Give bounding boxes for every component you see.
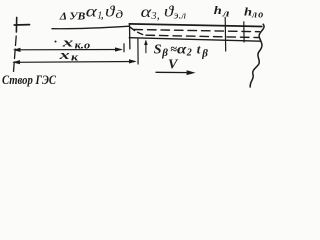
ice cover left edge (with extension down to dimension line)	[129, 24, 131, 49]
dimension x_к left arrowhead	[12, 60, 20, 64]
break (wavy) line at right end of ice cover	[250, 24, 264, 87]
dashed layer line 2 inside ice cover	[146, 35, 260, 37]
svg-text:,: ,	[157, 8, 160, 22]
svg-text:β: β	[201, 47, 208, 59]
svg-text:Δ УВ: Δ УВ	[59, 11, 86, 22]
svg-text:V: V	[168, 58, 179, 73]
flow direction arrow under V	[156, 71, 192, 73]
ice cover top edge	[129, 24, 261, 27]
extension terminator line for x_к.о	[123, 44, 125, 52]
up arrow marking ice thickness S_в	[145, 41, 147, 53]
thickness tick for h_л crossing the ice cover	[224, 17, 227, 51]
svg-text:2: 2	[186, 48, 192, 59]
dashed transition curve from ice edge	[130, 27, 143, 35]
svg-text:h: h	[214, 3, 222, 17]
dimension line x_к.о (double headed)	[15, 49, 121, 51]
svg-text:л: л	[251, 10, 257, 21]
svg-text:S: S	[154, 42, 162, 57]
ice cover bottom edge	[129, 38, 260, 42]
svg-text:д: д	[115, 7, 123, 21]
svg-text:к.о: к.о	[75, 40, 91, 51]
svg-text:Створ ГЭС: Створ ГЭС	[2, 73, 57, 87]
dam axis tick (original water level bar)	[14, 24, 29, 26]
svg-text:α: α	[177, 43, 187, 58]
svg-text:α: α	[86, 4, 98, 21]
stray scan speck (comma) left of x_к.о	[55, 41, 57, 43]
svg-text:α: α	[141, 4, 152, 21]
extension line for x_к (below ice edge curve end)	[137, 39, 139, 64]
dimension x_к.о left arrowhead	[13, 48, 21, 52]
svg-text:ϑ: ϑ	[105, 3, 116, 20]
water surface line (upstream level)	[52, 26, 129, 29]
svg-text:x: x	[58, 47, 70, 62]
dam axis vertical line (Створ ГЭС axis), solid top part	[15, 17, 17, 32]
svg-text:э.л: э.л	[174, 10, 187, 21]
dashed layer line 1 inside ice cover	[134, 30, 260, 32]
svg-text:о: о	[258, 10, 263, 21]
dam axis vertical line, dashed lower part	[13, 36, 16, 74]
svg-text:л: л	[221, 8, 229, 19]
svg-text:3: 3	[151, 11, 157, 22]
thickness tick for h_л.о crossing the ice cover	[243, 22, 245, 42]
svg-text:,: ,	[101, 7, 104, 21]
dimension x_к right arrowhead	[129, 59, 137, 63]
svg-text:t: t	[197, 42, 201, 57]
dimension line x_к (double headed)	[15, 61, 135, 64]
dimension x_к.о right arrowhead	[115, 47, 123, 51]
